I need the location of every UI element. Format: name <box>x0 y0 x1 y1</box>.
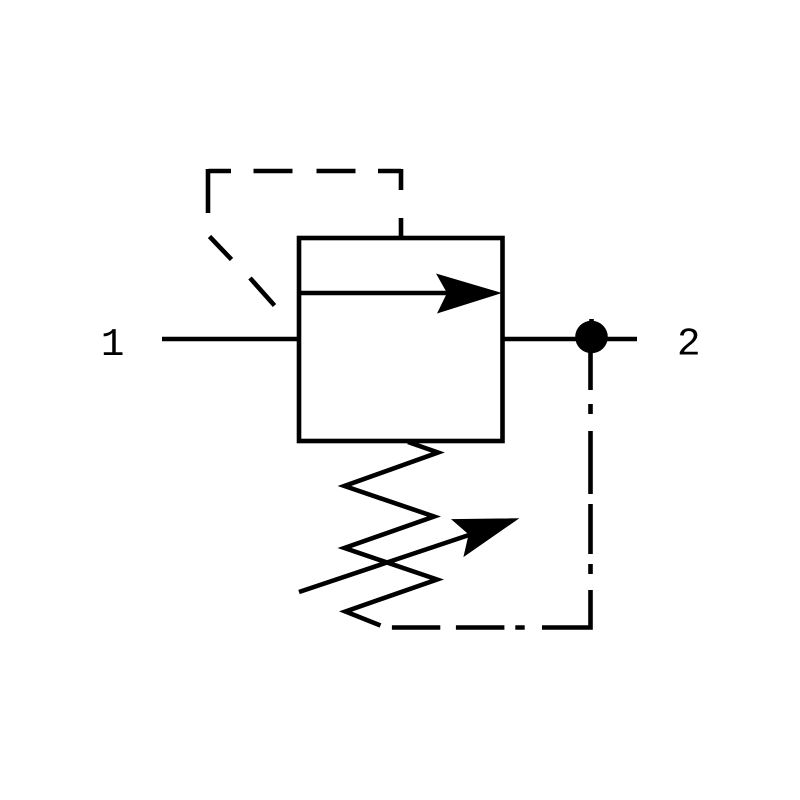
spring adjustment arrow shaft <box>299 534 472 592</box>
port 2 label <box>680 328 698 354</box>
valve envelope box <box>299 238 503 441</box>
pilot line dashed: diagonal <box>210 237 275 306</box>
wire: port 2 line <box>503 337 638 342</box>
pilot dash-dot: vertical run below junction <box>588 352 593 574</box>
spring <box>345 442 439 626</box>
stub above junction <box>589 319 594 336</box>
wire: port 1 line <box>162 337 301 342</box>
spring adjustment arrowhead <box>451 518 519 557</box>
pilot dash-dot: corner segment <box>542 590 591 628</box>
flow path arrowhead <box>436 274 502 314</box>
pilot line dashed: top horizontal <box>209 169 402 174</box>
flow path arrow shaft <box>299 291 450 296</box>
junction node dot <box>575 321 608 354</box>
port 1 label <box>104 329 123 355</box>
pilot line dashed: left vertical <box>206 169 211 213</box>
pilot line dashed: right vertical <box>399 169 404 236</box>
pilot dash-dot: bottom horizontal <box>392 625 525 630</box>
